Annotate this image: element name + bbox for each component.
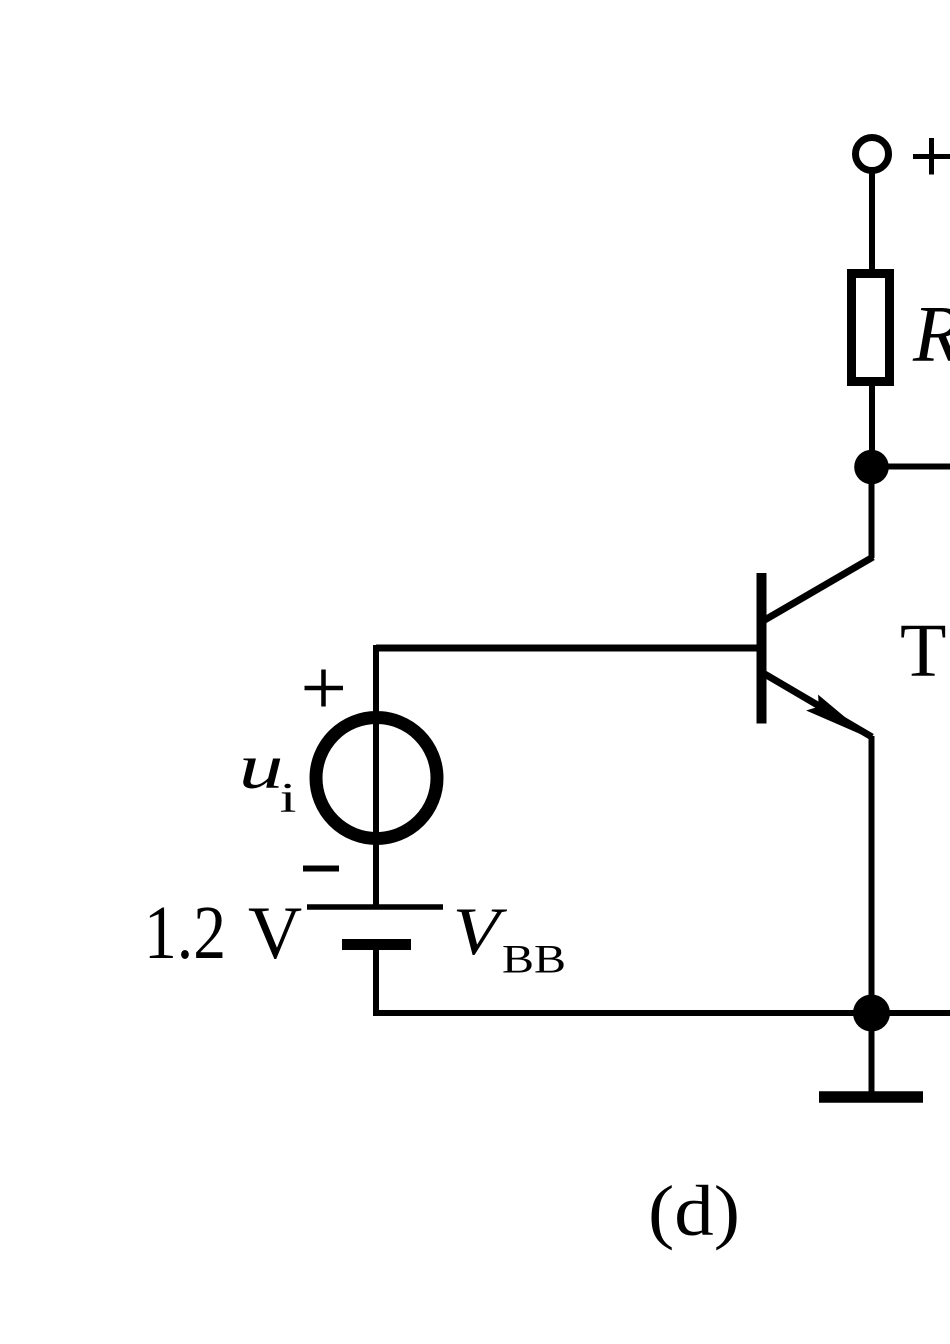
- transistor T base bar: [757, 573, 767, 724]
- transistor T emitter lead: [763, 673, 872, 737]
- svg-text:V: V: [248, 892, 302, 975]
- svg-text:1.2: 1.2: [144, 891, 226, 975]
- wire node down to collector bend: [869, 467, 875, 558]
- plus sign at source: [305, 670, 344, 707]
- ground bar: [819, 1091, 923, 1103]
- svg-text:R: R: [912, 291, 950, 379]
- transistor T collector lead: [763, 557, 873, 621]
- battery VBB short plate: [342, 939, 411, 950]
- minus sign: [303, 866, 339, 872]
- svg-text:u: u: [239, 731, 284, 802]
- left vertical wire through source: [373, 645, 379, 907]
- svg-text:V: V: [453, 893, 508, 969]
- base wire: [376, 645, 757, 652]
- svg-text:T: T: [900, 609, 946, 693]
- wire terminal to resistor: [869, 171, 875, 274]
- wire node to right edge: [872, 464, 950, 470]
- label u_i: [239, 731, 284, 802]
- node emitter ground junction: [853, 995, 890, 1032]
- wire node to ground: [869, 1013, 875, 1092]
- node collector junction: [854, 450, 889, 485]
- terminal circle (+ supply): [856, 138, 889, 171]
- wire emitter down to bottom node: [869, 736, 875, 1013]
- battery VBB long plate: [307, 904, 443, 910]
- svg-text:i: i: [280, 776, 297, 822]
- label VBB: [453, 893, 508, 969]
- plus sign top right: [913, 138, 950, 175]
- transistor emitter arrowhead: [806, 695, 870, 739]
- bottom rail wire: [373, 1010, 950, 1016]
- wire battery to bottom rail: [373, 945, 379, 1014]
- source circle u_i: [316, 718, 437, 839]
- resistor R: [852, 274, 890, 382]
- svg-text:(d): (d): [648, 1171, 740, 1251]
- wire resistor to node: [869, 386, 875, 467]
- svg-text:BB: BB: [502, 937, 566, 982]
